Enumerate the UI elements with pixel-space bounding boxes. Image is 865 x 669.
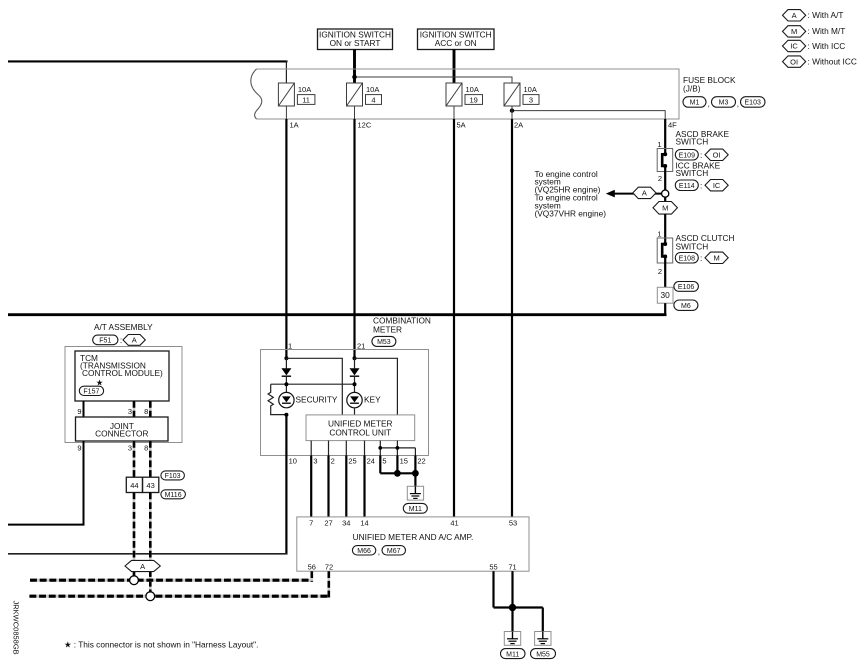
svg-text:7: 7 — [309, 518, 313, 527]
svg-text:CONTROL MODULE): CONTROL MODULE) — [82, 368, 163, 378]
connector M55 (bottom ground) — [531, 649, 556, 659]
svg-text:2A: 2A — [514, 120, 523, 129]
hexagon A on branch — [633, 187, 656, 198]
svg-text:24: 24 — [367, 457, 375, 466]
connector E103 — [737, 97, 765, 109]
text to engine control system — [535, 169, 607, 219]
wire cross tie resistor to key branch — [271, 383, 355, 385]
svg-text:E108: E108 — [679, 256, 695, 263]
ground symbol M11 (bottom) — [504, 632, 520, 646]
fuse block (J/B) outline — [251, 69, 679, 119]
svg-text:43: 43 — [146, 481, 154, 490]
svg-text:M6: M6 — [681, 303, 691, 310]
svg-text:M: M — [662, 204, 668, 213]
svg-text::: : — [700, 253, 702, 263]
node junction circle — [662, 190, 669, 197]
junction dot ground tie — [509, 604, 516, 611]
shielded bus line 1 to amp pin 56 — [30, 571, 312, 582]
svg-text:METER: METER — [373, 324, 402, 334]
wire control unit pin 24 — [364, 441, 366, 456]
joint connector pin labels 9 3 8 — [77, 444, 148, 453]
connector F51 : A — [93, 335, 146, 346]
svg-text:71: 71 — [508, 563, 516, 572]
svg-text:A: A — [140, 562, 145, 571]
legend hexagon M : With M/T — [783, 26, 846, 37]
svg-text:ON or START: ON or START — [330, 38, 381, 48]
wire pins 5 15 22 to ground — [380, 456, 419, 487]
connector box 30 — [657, 287, 673, 303]
svg-text:25: 25 — [348, 457, 356, 466]
fuse block label FUSE BLOCK (J/B) — [683, 75, 736, 94]
wire control unit pin 3 — [310, 441, 312, 456]
wire clutch switch pin 2 to connector 30 — [664, 257, 666, 288]
svg-text:M55: M55 — [536, 651, 550, 658]
ASCD brake switch E109 — [657, 149, 673, 172]
wire 5A to amp pin 41 — [453, 119, 455, 517]
connector M11 (bottom ground) — [501, 649, 526, 659]
svg-text:4: 4 — [371, 95, 375, 104]
svg-text:44: 44 — [130, 481, 138, 490]
svg-text:M1: M1 — [690, 100, 700, 107]
connector box 43 — [143, 477, 159, 492]
svg-text:M: M — [713, 254, 719, 263]
TCM box — [75, 351, 169, 401]
wire battery feed top left — [8, 60, 288, 62]
svg-text:3: 3 — [128, 444, 132, 453]
wire meter pin10 down — [285, 415, 287, 555]
wire 2A to 4F branch — [510, 108, 665, 119]
wire 1A to combination meter pin 1 — [285, 119, 287, 358]
svg-text:3: 3 — [529, 95, 533, 104]
svg-text:E114: E114 — [679, 183, 695, 190]
wire joint connector pin 9 to left edge — [8, 441, 84, 525]
svg-text:10: 10 — [289, 457, 297, 466]
connector F157 — [79, 386, 103, 395]
wire branch pin1 to control unit — [286, 358, 342, 415]
wire ground tie 55-71 — [494, 606, 543, 608]
svg-text:M11: M11 — [409, 506, 422, 513]
connector E106 — [674, 282, 699, 292]
svg-text:19: 19 — [470, 95, 478, 104]
svg-text:72: 72 — [325, 563, 333, 572]
svg-text:M67: M67 — [387, 548, 401, 555]
svg-text:21: 21 — [357, 341, 365, 350]
joint connector box — [76, 417, 169, 441]
resistor R (parallel with security LED) — [268, 384, 286, 414]
A/T assembly outer box — [65, 347, 182, 443]
svg-text:F157: F157 — [83, 389, 99, 396]
svg-text:10A: 10A — [466, 85, 479, 94]
svg-text:3: 3 — [313, 457, 317, 466]
wire node to hexagon M — [664, 197, 666, 202]
node security feed — [284, 356, 288, 360]
svg-text:41: 41 — [450, 518, 458, 527]
wire pin10 run to left edge — [8, 553, 287, 555]
wire feed drop to fuse 11 — [285, 61, 287, 84]
svg-text:9: 9 — [77, 407, 81, 416]
svg-text:,: , — [737, 99, 739, 109]
wire TCM pin 9 to joint connector — [83, 401, 85, 417]
wire branch pin21 to control unit — [355, 358, 398, 415]
svg-text:M116: M116 — [165, 492, 182, 499]
svg-text:15: 15 — [400, 457, 408, 466]
svg-text:1: 1 — [657, 140, 661, 149]
svg-text:14: 14 — [360, 518, 368, 527]
svg-text:10A: 10A — [524, 85, 537, 94]
junction dot security — [284, 382, 288, 386]
svg-text:M66: M66 — [357, 548, 371, 555]
fuse 10A 4 — [347, 83, 382, 106]
ASCD clutch switch E108 — [657, 238, 673, 263]
wire 12C to combination meter pin 21 — [353, 119, 355, 358]
arrowhead to engine control system — [606, 190, 615, 198]
connector F103 — [161, 471, 185, 480]
svg-text:1A: 1A — [290, 120, 299, 129]
unified meter control unit box — [306, 415, 415, 441]
svg-text:53: 53 — [509, 518, 517, 527]
connector M1 — [683, 97, 706, 108]
connector E109 : OI — [675, 149, 728, 160]
junction circle bus 2 — [146, 592, 155, 601]
svg-text:2: 2 — [658, 267, 662, 276]
shielded bus line 2 to amp pin 72 — [29, 571, 328, 598]
label box IGNITION SWITCH ON or START — [318, 29, 393, 50]
wire down to ground M11 — [511, 608, 513, 632]
wire meter pin25 to amp pin34 — [345, 456, 347, 517]
label COMBINATION METER — [373, 316, 431, 335]
svg-text:5A: 5A — [457, 120, 466, 129]
wire pin 3 shielded down to connector 44 — [133, 441, 136, 477]
diode key — [350, 368, 360, 376]
wire feed line to fuse 3 — [352, 75, 512, 83]
svg-text:UNIFIED METER AND A/C AMP.: UNIFIED METER AND A/C AMP. — [353, 532, 474, 542]
connector M11 (meter ground) — [403, 503, 427, 513]
svg-text:SECURITY: SECURITY — [296, 394, 338, 404]
terminal labels 1A 12C 5A 2A 4F — [290, 120, 678, 129]
amp top pin labels 7 27 34 14 41 53 — [309, 518, 517, 527]
wire connector 30 to ground bus — [664, 303, 666, 316]
fuse 10A 19 — [446, 83, 483, 106]
svg-text:SWITCH: SWITCH — [676, 241, 709, 251]
wire brake switch pin 2 to node — [664, 166, 666, 190]
wire control unit pin 25 — [345, 441, 347, 456]
svg-text:,: , — [708, 99, 710, 109]
svg-text:M: M — [791, 27, 797, 36]
svg-text:E109: E109 — [679, 153, 695, 160]
svg-text:8: 8 — [144, 407, 148, 416]
hexagon A over shielded pair — [125, 560, 160, 571]
connector M3 — [708, 97, 736, 109]
wire from ON/START box to fuse 4 — [353, 50, 356, 84]
svg-text::: : — [120, 335, 122, 345]
LED KEY — [347, 392, 362, 407]
wire diode1 to junction — [285, 376, 287, 392]
amp bottom pin labels 56 72 55 71 — [308, 563, 517, 572]
wire down to ground M55 — [542, 608, 544, 632]
wire control unit pin 2 — [328, 441, 330, 456]
wire hexagon M to ASCD clutch switch pin 1 — [664, 214, 666, 244]
svg-text:10A: 10A — [298, 85, 311, 94]
svg-text:M3: M3 — [719, 100, 729, 107]
diode security — [281, 368, 291, 376]
wire from ACC/ON box to fuse 19 — [453, 50, 456, 84]
label box IGNITION SWITCH ACC or ON — [418, 29, 495, 50]
svg-text:27: 27 — [324, 518, 332, 527]
svg-text:CONTROL UNIT: CONTROL UNIT — [329, 427, 391, 437]
svg-text:22: 22 — [417, 457, 425, 466]
junction circle bus 1 — [130, 576, 139, 585]
svg-text:11: 11 — [302, 95, 310, 104]
junction dot security out — [284, 413, 288, 417]
connector box 44 — [126, 477, 142, 492]
connector E108 : M — [675, 252, 728, 263]
svg-text:(J/B): (J/B) — [683, 83, 701, 93]
svg-text:E106: E106 — [678, 284, 694, 291]
wire fuse outlet stubs — [286, 106, 512, 119]
wire 43 shielded down to bus B — [149, 493, 152, 592]
svg-text::: : — [700, 181, 702, 191]
svg-text:F103: F103 — [165, 473, 181, 480]
svg-text:A/T ASSEMBLY: A/T ASSEMBLY — [94, 322, 153, 332]
svg-text:5: 5 — [382, 457, 386, 466]
wire meter pin3 to amp pin7 — [310, 456, 312, 517]
legend hexagon A : With A/T — [783, 10, 844, 21]
svg-text:8: 8 — [144, 444, 148, 453]
connector M53 — [372, 336, 396, 346]
svg-text:9: 9 — [77, 444, 81, 453]
LED SECURITY — [279, 392, 294, 407]
legend hexagon IC : With ICC — [783, 40, 846, 51]
svg-text:IC: IC — [790, 42, 798, 51]
wire amp pin 55 to ground — [492, 571, 494, 607]
svg-text:2: 2 — [331, 457, 335, 466]
svg-text:★ : This connector is not show: ★ : This connector is not shown in "Harn… — [64, 640, 258, 650]
svg-text:: With M/T: : With M/T — [808, 26, 846, 36]
connector M66 — [352, 546, 375, 555]
svg-text:: With ICC: : With ICC — [808, 41, 846, 51]
fuse 10A 3 — [504, 83, 539, 106]
wire key LED to control unit — [354, 408, 356, 415]
wire branch to engine control — [614, 193, 662, 195]
fuse 10A 11 — [278, 83, 315, 106]
wire ground bus horizontal — [8, 313, 667, 316]
wire control unit to pins 5 15 22 — [378, 441, 415, 456]
wire pin 8 shielded down to connector 43 — [149, 441, 152, 477]
label ASCD BRAKE SWITCH — [676, 129, 730, 147]
svg-text:OI: OI — [713, 151, 721, 160]
svg-text:12C: 12C — [358, 120, 372, 129]
wire 4F down to ASCD brake switch pin 1 — [664, 119, 666, 154]
svg-text:,: , — [378, 547, 380, 557]
svg-text::: : — [700, 150, 702, 160]
connector M116 — [161, 490, 186, 499]
wire 44 shielded down to bus A — [133, 493, 136, 576]
svg-text:2: 2 — [658, 174, 662, 183]
svg-text:3: 3 — [128, 407, 132, 416]
wire meter pin2 to amp pin27 — [327, 456, 329, 517]
wire 2A to amp pin 53 — [511, 119, 513, 517]
svg-text:30: 30 — [660, 290, 670, 300]
wire to diode 1 — [285, 358, 287, 368]
connector M6 — [674, 300, 698, 310]
svg-text:: With A/T: : With A/T — [808, 10, 844, 20]
wire meter pin24 to amp pin14 — [363, 456, 365, 517]
svg-text:KEY: KEY — [364, 394, 381, 404]
svg-text:10A: 10A — [366, 85, 379, 94]
node key feed — [353, 356, 357, 360]
svg-text:ACC or ON: ACC or ON — [435, 38, 477, 48]
combination meter box — [261, 350, 429, 456]
svg-text:SWITCH: SWITCH — [676, 168, 709, 178]
svg-text:55: 55 — [489, 563, 497, 572]
wire TCM pin 3 to joint connector (shielded) — [133, 401, 136, 417]
svg-text:A: A — [642, 189, 647, 198]
ground symbol M11 (meter) — [407, 486, 423, 500]
legend hexagon OI : Without ICC — [783, 56, 857, 67]
svg-text:OI: OI — [790, 57, 798, 66]
svg-text:1: 1 — [288, 341, 292, 350]
wire diode2 to junction — [354, 376, 356, 392]
unified meter and a/c amp box — [297, 517, 529, 571]
svg-text:34: 34 — [342, 518, 350, 527]
hexagon M on 4F line — [653, 202, 677, 215]
wire TCM pin 8 to joint connector (shielded) — [149, 401, 152, 417]
svg-text:M11: M11 — [506, 651, 519, 658]
svg-text:CONNECTOR: CONNECTOR — [95, 428, 148, 438]
junction dot key — [353, 382, 357, 386]
svg-text:IC: IC — [713, 181, 721, 190]
svg-text:M53: M53 — [377, 339, 391, 346]
ground symbol M55 (bottom) — [535, 632, 551, 646]
meter bottom pin labels 10 3 2 25 24 5 15 22 — [289, 457, 426, 466]
connector E114 : IC — [675, 180, 728, 191]
svg-text:E103: E103 — [745, 100, 761, 107]
svg-text:F51: F51 — [99, 338, 111, 345]
svg-text:JRKWC0858GB: JRKWC0858GB — [12, 601, 21, 655]
connector M67 — [378, 546, 406, 557]
wire amp pin 71 to ground — [511, 571, 513, 607]
svg-text:56: 56 — [308, 563, 316, 572]
svg-text:: Without ICC: : Without ICC — [808, 56, 857, 66]
label ASCD CLUTCH SWITCH — [676, 233, 735, 251]
svg-text:A: A — [132, 336, 137, 345]
svg-text:A: A — [792, 11, 797, 20]
svg-text:(VQ37VHR engine): (VQ37VHR engine) — [535, 208, 607, 218]
svg-text:SWITCH: SWITCH — [676, 136, 709, 146]
label ICC BRAKE SWITCH — [676, 160, 721, 178]
TCM pin labels 9 3 8 — [77, 407, 148, 416]
svg-text:1: 1 — [657, 230, 661, 239]
wire to diode 2 — [354, 358, 356, 368]
